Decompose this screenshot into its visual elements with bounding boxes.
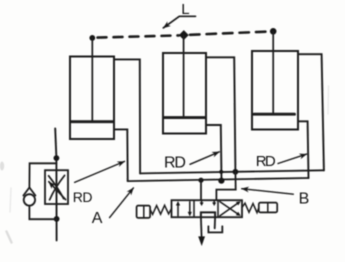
scan smudge left edge 3: [10, 188, 11, 212]
wire P supply line: [200, 217, 203, 237]
scan smudge left edge 2: [7, 232, 12, 243]
cylinder C1 body: [70, 57, 114, 140]
throttle adjust arrow: [49, 182, 66, 200]
node rod joint 1: [89, 35, 95, 41]
wire C2 rod-side pipe (continues to valve port B): [206, 57, 235, 171]
leader arrow RD1 to C2 pipe: [190, 152, 219, 165]
valve U1 divider middle/right: [217, 200, 219, 217]
wire C3 rod-side pipe: [298, 54, 324, 170]
wire check valve bypass lower: [29, 206, 56, 220]
leader arrow RD2 to C3 pipe: [278, 154, 307, 163]
cylinder C2 piston: [164, 116, 205, 119]
wire valve port A line: [200, 180, 202, 200]
wire bus B (rod sides): [140, 170, 324, 173]
leader arrow from L to linkage: [163, 16, 195, 28]
valve U1 4/3 directional valve body: [172, 200, 243, 217]
valve U1 left box down arrow: [189, 202, 191, 214]
svg-text:RD: RD: [164, 155, 185, 172]
tank T: [208, 226, 222, 232]
svg-text:B: B: [299, 191, 310, 208]
solenoid right: [259, 203, 277, 213]
cylinder C1 rod: [91, 38, 93, 120]
cylinder C2 rod: [183, 35, 185, 116]
junction C2 rod pipe on bus B: [233, 169, 239, 175]
throttle arc 2: [50, 175, 65, 199]
wire RD-detail main line: [55, 128, 56, 240]
valve U1 left box up arrow: [177, 204, 179, 216]
wire check valve bypass upper: [29, 163, 56, 187]
wire C3 piston-side pipe: [298, 121, 309, 178]
cylinder C3 rod: [272, 31, 274, 113]
svg-text:RD: RD: [73, 189, 93, 205]
throttle arc 1: [49, 176, 64, 199]
valve U1 divider left/middle: [193, 200, 195, 217]
spring left of valve: [150, 205, 171, 214]
leader arrow B to valve port B line: [242, 189, 294, 195]
valve U1 middle box blocked port B stub: [213, 200, 215, 203]
wire C1 piston-side pipe: [114, 129, 128, 181]
junction C2 piston pipe on bus A: [218, 178, 224, 184]
scan smudge right area: [327, 86, 330, 114]
svg-text:A: A: [92, 210, 103, 227]
valve U1 right box crossed arrows: [220, 203, 239, 216]
node rod joint 2: [179, 30, 189, 40]
junction blob crossing on bus B: [219, 170, 223, 174]
cylinder C2 body: [163, 53, 206, 134]
junction A-port on bus A: [198, 178, 203, 183]
wire C1 rod-side pipe: [114, 59, 140, 173]
cylinder C1 piston: [71, 120, 113, 123]
junction RD-detail top: [54, 155, 60, 161]
wire mechanical linkage L (dashed) left span: [98, 35, 180, 37]
wire bus A (piston sides): [128, 178, 309, 181]
check valve V seat: [23, 188, 35, 196]
cylinder C3 piston: [254, 113, 295, 116]
wire valve port B line: [216, 172, 235, 200]
wire T return line: [214, 217, 216, 228]
wire C2 piston-side pipe: [206, 125, 222, 181]
svg-text:RD: RD: [256, 153, 276, 170]
cylinder C3 body: [252, 51, 298, 130]
throttle valve RD detail box: [45, 170, 68, 204]
solenoid left: [137, 206, 151, 218]
scan smudge left edge 1: [0, 162, 4, 171]
spring right of valve: [242, 203, 259, 212]
junction RD-detail bottom: [54, 216, 60, 222]
node rod joint 3: [270, 28, 277, 35]
valve U1 middle box blocked port A stub: [201, 200, 203, 203]
wire mechanical linkage L (dashed) right span: [190, 32, 268, 35]
valve U1 middle box P-T bridge: [201, 212, 215, 217]
pressure source P (filled triangle): [198, 236, 205, 246]
leader arrow RD detail to C1 pipe: [75, 161, 125, 182]
check valve ball: [24, 194, 35, 205]
leader arrow A to bus A: [110, 188, 134, 218]
